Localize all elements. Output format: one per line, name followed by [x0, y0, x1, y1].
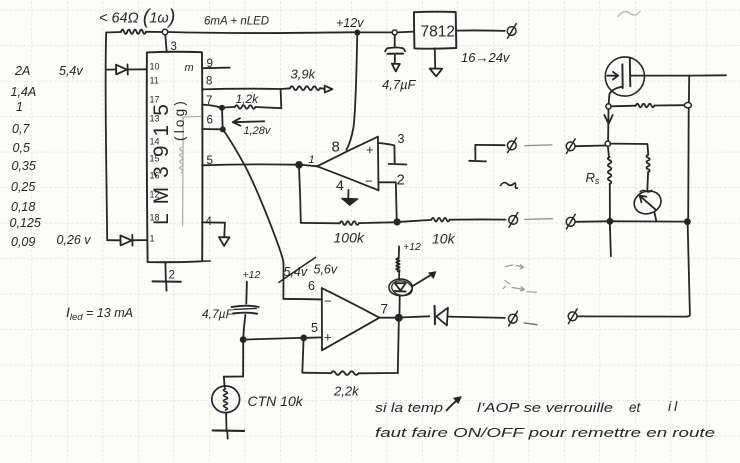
svg-text:2: 2 [169, 270, 175, 282]
svg-text:CTN 10k: CTN 10k [248, 393, 304, 409]
svg-text:4,7µF: 4,7µF [382, 77, 417, 92]
svg-text:4: 4 [206, 216, 213, 228]
svg-text:8: 8 [206, 76, 212, 88]
svg-text:2,2k: 2,2k [333, 384, 360, 399]
svg-text:l’AOP se verrouille: l’AOP se verrouille [477, 400, 613, 415]
svg-text:5,6v: 5,6v [314, 263, 338, 277]
svg-text:8: 8 [332, 139, 340, 156]
svg-text:et: et [629, 400, 642, 415]
svg-text:0,26 v: 0,26 v [57, 233, 92, 247]
svg-text:5,4v: 5,4v [59, 64, 83, 78]
svg-text:il: il [668, 398, 680, 414]
svg-text:+: + [324, 330, 332, 345]
svg-text:1: 1 [16, 100, 23, 114]
svg-text:+12: +12 [403, 241, 421, 253]
svg-text:0,09: 0,09 [11, 235, 35, 249]
svg-text:5,4v: 5,4v [284, 265, 308, 279]
svg-text:3,9k: 3,9k [291, 67, 317, 82]
svg-text:+12: +12 [243, 269, 261, 281]
svg-text:2A: 2A [14, 64, 30, 78]
svg-text:3: 3 [398, 132, 405, 146]
svg-text:−: − [324, 294, 332, 309]
svg-text:9: 9 [207, 58, 213, 70]
svg-text:0,5: 0,5 [13, 141, 30, 155]
svg-text:6: 6 [207, 115, 213, 127]
svg-text:LM3915: LM3915 [150, 95, 173, 225]
svg-text:10: 10 [150, 62, 160, 72]
svg-text:+12v: +12v [336, 16, 364, 30]
svg-text:11: 11 [150, 76, 159, 86]
svg-text:0,7: 0,7 [12, 122, 30, 136]
svg-text:7812: 7812 [421, 24, 455, 41]
svg-text:1: 1 [150, 234, 155, 244]
svg-text:faut faire ON/OFF pour remettr: faut faire ON/OFF pour remettre en route [375, 425, 715, 440]
svg-text:(log): (log) [172, 98, 187, 141]
svg-text:+: + [366, 142, 374, 157]
svg-text:1,28v: 1,28v [244, 125, 272, 137]
svg-text:100k: 100k [334, 230, 365, 246]
svg-text:16→24v: 16→24v [461, 50, 511, 65]
svg-text:6: 6 [308, 279, 315, 293]
svg-text:5: 5 [207, 155, 213, 167]
svg-text:m: m [185, 62, 194, 74]
svg-text:−: − [365, 174, 373, 189]
svg-text:si la temp: si la temp [375, 400, 443, 415]
svg-text:< 64Ω (1ω): < 64Ω (1ω) [99, 7, 175, 29]
svg-text:1,4A: 1,4A [11, 85, 37, 99]
svg-text:4: 4 [336, 177, 344, 193]
svg-text:4,7µF: 4,7µF [202, 307, 234, 321]
svg-text:7: 7 [381, 302, 389, 317]
svg-text:0,125: 0,125 [10, 216, 41, 230]
svg-text:2: 2 [397, 172, 405, 189]
svg-text:1,2k: 1,2k [236, 92, 260, 106]
svg-text:10k: 10k [432, 231, 456, 247]
svg-text:3: 3 [171, 41, 177, 53]
svg-text:1: 1 [309, 154, 315, 166]
svg-text:0,25: 0,25 [11, 180, 35, 194]
svg-text:6mA + nLED: 6mA + nLED [204, 16, 269, 28]
svg-text:0,35: 0,35 [12, 159, 36, 173]
svg-text:0,18: 0,18 [11, 200, 35, 214]
svg-text:7: 7 [206, 95, 212, 107]
svg-text:5: 5 [311, 321, 318, 335]
